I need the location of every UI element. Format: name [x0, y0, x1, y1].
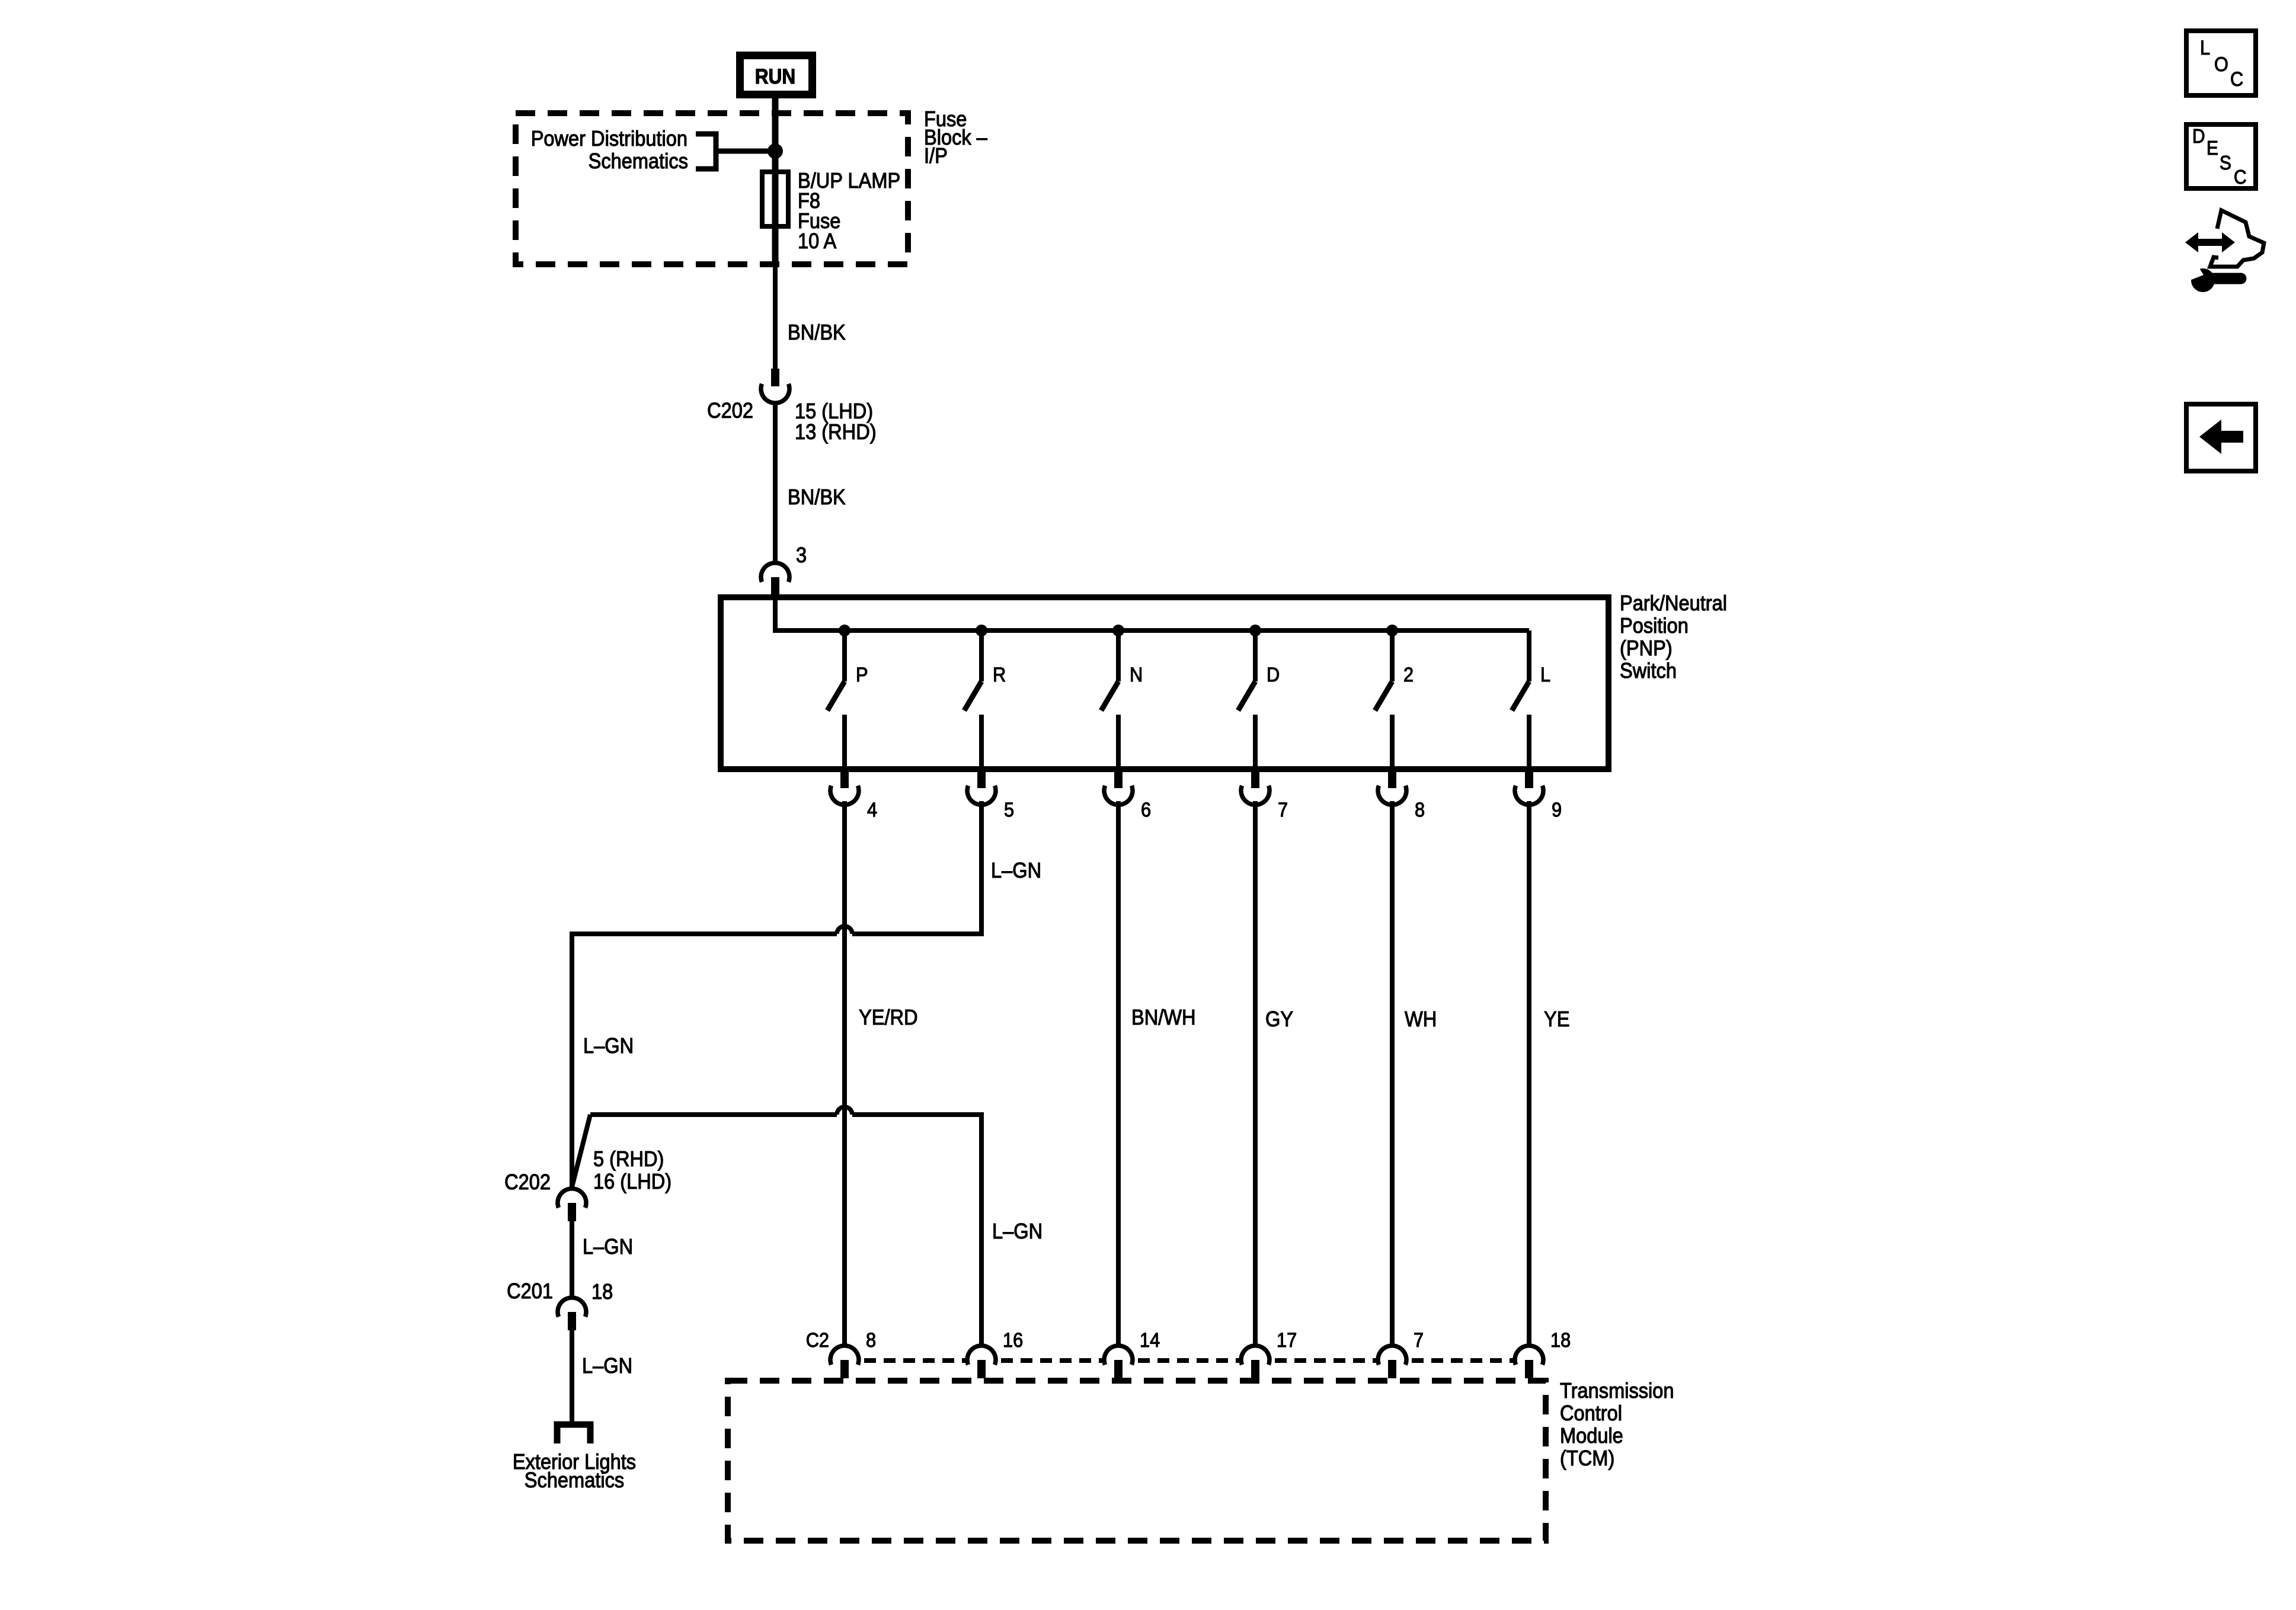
- svg-text:16: 16: [1003, 1329, 1023, 1352]
- svg-text:2: 2: [1403, 664, 1414, 686]
- icon DESC button: [2186, 124, 2256, 188]
- connector pin 6: [1104, 770, 1133, 805]
- wire N to TCM pin 14 (BN/WH): [1116, 801, 1121, 1346]
- wire left branch down: [570, 932, 574, 1189]
- wire C202 to PNP switch: [773, 403, 778, 563]
- icon back arrow button: [2186, 404, 2256, 471]
- svg-text:C202: C202: [707, 398, 753, 422]
- connector pin 7: [1241, 770, 1269, 805]
- svg-text:Schematics: Schematics: [525, 1468, 624, 1492]
- Park/Neutral Position switch box: [721, 597, 1609, 769]
- svg-text:BN/BK: BN/BK: [788, 485, 846, 509]
- svg-text:O: O: [2214, 53, 2228, 76]
- label Exterior Lights Schematics: [513, 1449, 636, 1492]
- svg-text:L–GN: L–GN: [583, 1234, 633, 1259]
- svg-text:8: 8: [866, 1329, 876, 1352]
- svg-text:D: D: [2192, 125, 2205, 147]
- icon vehicle diagnostic (arrow, car outline, wrench): [2185, 210, 2264, 292]
- wire branch horizontal 2: [590, 1112, 984, 1117]
- svg-text:3: 3: [796, 543, 807, 567]
- label B/UP LAMP F8 Fuse 10 A: [798, 168, 900, 253]
- connector C2 pin 14: [1104, 1346, 1133, 1378]
- svg-text:17: 17: [1277, 1329, 1297, 1352]
- label 15 (LHD) 13 (RHD): [795, 399, 877, 444]
- label Transmission Control Module (TCM): [1560, 1378, 1674, 1470]
- svg-text:WH: WH: [1405, 1007, 1437, 1031]
- icon LOC button: [2186, 31, 2256, 95]
- switch R: [964, 630, 981, 769]
- svg-text:BN/BK: BN/BK: [788, 320, 846, 344]
- junction dot P: [839, 625, 850, 636]
- off-page connector fork: [557, 1425, 590, 1443]
- Transmission Control Module dashed box: [728, 1381, 1546, 1541]
- wire diagonal to C202: [572, 1115, 590, 1187]
- connector C2 pin 8: [830, 1346, 859, 1378]
- svg-text:C201: C201: [507, 1279, 553, 1303]
- svg-text:N: N: [1130, 664, 1143, 686]
- switch D: [1238, 630, 1255, 769]
- svg-text:14: 14: [1140, 1329, 1160, 1352]
- svg-text:L–GN: L–GN: [991, 858, 1041, 882]
- svg-text:S: S: [2220, 152, 2231, 174]
- wire R down to branch: [979, 801, 984, 936]
- svg-text:9: 9: [1552, 799, 1562, 821]
- svg-text:8: 8: [1415, 799, 1425, 821]
- svg-text:I/P: I/P: [924, 143, 948, 168]
- connector pin 8: [1378, 770, 1406, 805]
- junction node dot: [768, 143, 783, 159]
- wire RUN to fuse block: [772, 98, 779, 267]
- svg-text:(PNP): (PNP): [1620, 636, 1673, 660]
- junction dot N: [1112, 625, 1124, 636]
- wire L to TCM pin 18 (YE): [1527, 801, 1531, 1346]
- switch L: [1512, 630, 1529, 769]
- wire P to TCM pin 8 (YE/RD): [842, 801, 847, 1346]
- svg-text:7: 7: [1414, 1329, 1424, 1352]
- svg-text:GY: GY: [1265, 1007, 1293, 1031]
- connector C2 pin 17: [1241, 1346, 1269, 1378]
- connector pin 5: [967, 770, 996, 805]
- svg-text:L–GN: L–GN: [582, 1353, 632, 1378]
- double arrow: [2185, 232, 2235, 252]
- connector C202 pin 15/13: [761, 369, 789, 403]
- svg-text:6: 6: [1141, 799, 1151, 821]
- svg-text:Power Distribution: Power Distribution: [531, 126, 687, 151]
- junction dot 2: [1386, 625, 1398, 636]
- svg-text:Transmission: Transmission: [1560, 1378, 1674, 1403]
- svg-text:RUN: RUN: [755, 65, 796, 88]
- svg-text:YE/RD: YE/RD: [859, 1005, 918, 1029]
- svg-text:Position: Position: [1620, 613, 1689, 638]
- connector C2 pin 7: [1378, 1346, 1406, 1378]
- svg-text:C2: C2: [806, 1329, 829, 1352]
- junction dot D: [1249, 625, 1261, 636]
- bus wire inside switch: [773, 628, 1529, 633]
- wire 2 to TCM pin 7 (WH): [1390, 801, 1395, 1346]
- wire pin 3 into box: [773, 597, 778, 633]
- connector pin 4: [830, 770, 859, 805]
- label Park/Neutral Position (PNP) Switch: [1620, 591, 1727, 683]
- svg-text:13 (RHD): 13 (RHD): [795, 420, 877, 444]
- reference bracket: [696, 134, 716, 169]
- svg-text:5 (RHD): 5 (RHD): [593, 1147, 664, 1171]
- svg-text:C202: C202: [504, 1170, 551, 1194]
- svg-text:R: R: [993, 664, 1006, 686]
- svg-text:Control: Control: [1560, 1401, 1622, 1425]
- connector C2 dashed link line: [845, 1358, 1529, 1363]
- connector C201 pin 18: [558, 1298, 586, 1330]
- svg-text:Park/Neutral: Park/Neutral: [1620, 591, 1727, 615]
- svg-text:Switch: Switch: [1620, 658, 1677, 683]
- wire hop 2 over P wire: [837, 1107, 852, 1115]
- car outline: [2210, 210, 2264, 267]
- svg-text:18: 18: [1550, 1329, 1571, 1352]
- svg-text:C: C: [2230, 68, 2243, 91]
- svg-text:5: 5: [1004, 799, 1014, 821]
- svg-text:BN/WH: BN/WH: [1131, 1005, 1196, 1029]
- svg-text:P: P: [856, 664, 868, 686]
- connector pin 3: [761, 563, 789, 596]
- switch N: [1101, 630, 1118, 769]
- wire C202 to C201: [570, 1219, 574, 1298]
- ignition switch position RUN box: [740, 56, 813, 95]
- svg-text:18: 18: [591, 1279, 613, 1304]
- label Power Distribution Schematics: [531, 126, 688, 173]
- svg-text:YE: YE: [1544, 1007, 1570, 1031]
- label 5 (RHD) 16 (LHD): [593, 1147, 671, 1193]
- wire C201 to exterior lights: [570, 1329, 574, 1422]
- wire D to TCM pin 17 (GY): [1253, 801, 1258, 1346]
- svg-text:10 A: 10 A: [798, 229, 836, 253]
- connector C2 pin 16: [967, 1346, 996, 1378]
- wire bracket to node: [716, 149, 775, 154]
- svg-text:Schematics: Schematics: [589, 149, 688, 173]
- svg-text:Module: Module: [1560, 1423, 1623, 1448]
- svg-text:L–GN: L–GN: [992, 1219, 1043, 1243]
- fuse F8: [762, 172, 788, 226]
- wire right branch down to TCM pin 16: [979, 1112, 984, 1346]
- svg-text:L: L: [1540, 664, 1550, 686]
- wire branch horizontal 1: [572, 932, 984, 936]
- connector C202 pin 5/16: [558, 1189, 586, 1221]
- switch P: [827, 630, 845, 769]
- connector pin 9: [1515, 770, 1543, 805]
- svg-text:L: L: [2200, 37, 2210, 59]
- connector C2 pin 18: [1515, 1346, 1543, 1378]
- svg-text:E: E: [2207, 137, 2218, 159]
- fuse block dashed box: [516, 113, 908, 264]
- switch 2: [1375, 630, 1392, 769]
- svg-text:16 (LHD): 16 (LHD): [593, 1169, 671, 1193]
- wrench: [2191, 268, 2215, 292]
- svg-text:7: 7: [1278, 799, 1288, 821]
- svg-text:4: 4: [867, 799, 877, 821]
- label Fuse Block - I/P: [924, 107, 987, 168]
- svg-text:L–GN: L–GN: [583, 1033, 634, 1058]
- wire hop over P wire: [837, 926, 852, 934]
- junction dot R: [976, 625, 987, 636]
- svg-text:(TCM): (TCM): [1560, 1446, 1614, 1470]
- svg-text:D: D: [1267, 664, 1280, 686]
- svg-text:C: C: [2234, 166, 2247, 188]
